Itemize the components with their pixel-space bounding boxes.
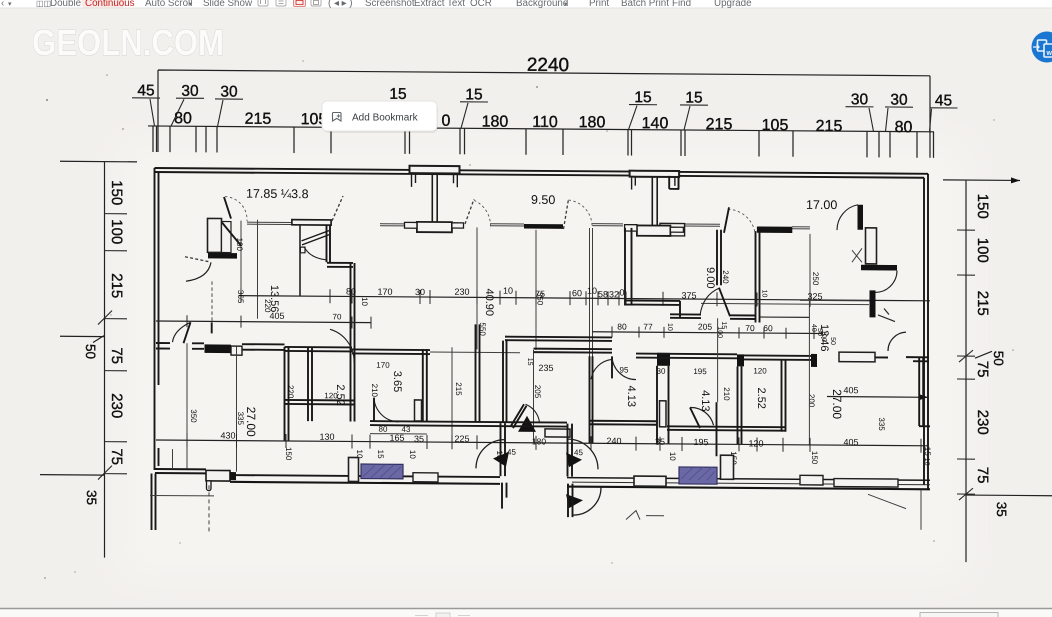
svg-text:Upgrade: Upgrade <box>714 0 752 9</box>
svg-text:Screenshot: Screenshot <box>365 0 415 9</box>
svg-text:30: 30 <box>415 287 425 297</box>
svg-text:140: 140 <box>642 115 669 132</box>
svg-text:10: 10 <box>760 290 767 298</box>
svg-text:3.65: 3.65 <box>391 371 403 393</box>
svg-text:130: 130 <box>319 432 334 442</box>
svg-text:4.13: 4.13 <box>625 386 637 408</box>
svg-text:60: 60 <box>763 323 773 333</box>
svg-text:0: 0 <box>619 287 624 297</box>
svg-text:215: 215 <box>706 116 733 133</box>
svg-text:15: 15 <box>720 321 727 329</box>
svg-text:Find: Find <box>672 0 691 9</box>
svg-text:GEOLN.COM: GEOLN.COM <box>32 22 224 63</box>
svg-text:Continuous: Continuous <box>85 0 135 9</box>
svg-text:215: 215 <box>245 111 272 128</box>
svg-text:180: 180 <box>532 436 546 446</box>
svg-text:75: 75 <box>108 347 125 364</box>
svg-text:10: 10 <box>923 458 930 466</box>
svg-text:35: 35 <box>655 437 665 447</box>
svg-text:240: 240 <box>606 436 621 446</box>
svg-text:50: 50 <box>829 337 836 345</box>
svg-text:110: 110 <box>532 114 558 131</box>
svg-text:45: 45 <box>137 82 154 99</box>
svg-text:w: w <box>1046 50 1052 57</box>
svg-text:4.13: 4.13 <box>699 390 711 412</box>
svg-text:15: 15 <box>685 89 702 106</box>
svg-text:215: 215 <box>974 291 991 316</box>
svg-text:75: 75 <box>974 467 991 484</box>
svg-text:375: 375 <box>681 290 696 300</box>
svg-text:195: 195 <box>693 437 708 447</box>
svg-text:215: 215 <box>108 273 125 298</box>
svg-text:60: 60 <box>572 288 582 298</box>
svg-text:Slide Show: Slide Show <box>203 0 253 9</box>
svg-text:195: 195 <box>693 367 707 376</box>
svg-text:80: 80 <box>895 119 913 136</box>
svg-text:OCR: OCR <box>470 0 492 9</box>
svg-text:35: 35 <box>994 502 1009 517</box>
svg-text:150: 150 <box>974 194 991 219</box>
svg-text:2240: 2240 <box>527 55 569 76</box>
svg-text:100: 100 <box>820 330 827 342</box>
svg-text:9.00: 9.00 <box>704 267 716 289</box>
svg-text:235: 235 <box>538 363 553 373</box>
svg-text:100: 100 <box>108 219 125 244</box>
svg-text:27.00: 27.00 <box>244 407 258 437</box>
svg-text:45: 45 <box>507 448 516 457</box>
svg-text:15: 15 <box>526 358 533 366</box>
svg-text:405: 405 <box>843 385 858 395</box>
svg-text:170: 170 <box>376 361 390 370</box>
svg-text:45: 45 <box>935 92 952 109</box>
svg-text:70: 70 <box>333 312 342 321</box>
svg-text:10: 10 <box>668 452 677 462</box>
svg-text:430: 430 <box>220 430 235 440</box>
svg-text:180: 180 <box>482 113 509 130</box>
svg-text:2.52: 2.52 <box>755 387 767 409</box>
svg-text:335: 335 <box>877 417 886 431</box>
svg-text:180: 180 <box>579 114 606 131</box>
svg-text:15: 15 <box>376 450 385 460</box>
svg-text:17.00: 17.00 <box>806 198 837 212</box>
svg-text:75: 75 <box>535 289 545 299</box>
svg-text:17.85 ¼3.8: 17.85 ¼3.8 <box>246 187 309 201</box>
svg-text:58: 58 <box>598 289 608 299</box>
svg-text:210: 210 <box>722 387 731 401</box>
svg-text:70: 70 <box>745 323 755 333</box>
svg-text:▾: ▾ <box>8 1 12 8</box>
svg-text:‹: ‹ <box>1 0 4 9</box>
svg-text:Add Bookmark: Add Bookmark <box>352 113 419 124</box>
svg-text:220: 220 <box>286 385 295 399</box>
svg-text:80: 80 <box>379 425 388 434</box>
svg-text:75: 75 <box>108 448 125 465</box>
svg-text:( ◂ ▸ ): ( ◂ ▸ ) <box>328 0 353 9</box>
svg-text:77: 77 <box>643 322 653 332</box>
svg-text:215: 215 <box>454 382 463 396</box>
svg-text:220: 220 <box>263 299 272 313</box>
svg-text:120: 120 <box>324 391 338 400</box>
svg-text:30: 30 <box>851 91 869 108</box>
svg-text:205: 205 <box>533 385 542 399</box>
svg-text:15: 15 <box>389 86 406 103</box>
svg-text:210: 210 <box>370 384 379 398</box>
svg-text:10: 10 <box>666 323 673 331</box>
svg-text:150: 150 <box>810 451 819 465</box>
svg-text:50: 50 <box>83 344 98 359</box>
svg-text:80: 80 <box>617 321 627 331</box>
svg-text:40.90: 40.90 <box>483 288 495 316</box>
svg-text:120: 120 <box>753 366 767 375</box>
svg-text:95: 95 <box>620 365 629 374</box>
svg-text:Print: Print <box>589 0 609 9</box>
svg-text:80: 80 <box>174 110 192 127</box>
svg-text:335: 335 <box>236 412 245 426</box>
svg-text:205: 205 <box>698 322 712 332</box>
svg-text:230: 230 <box>454 287 469 297</box>
svg-text:365: 365 <box>236 290 245 304</box>
svg-text:50: 50 <box>991 351 1006 366</box>
svg-text:27.00: 27.00 <box>830 389 844 419</box>
svg-text:230: 230 <box>974 410 991 435</box>
svg-text:Extract Text: Extract Text <box>414 0 465 9</box>
svg-text:15: 15 <box>923 447 932 457</box>
svg-text:165: 165 <box>389 433 404 443</box>
svg-text:230: 230 <box>108 393 125 418</box>
svg-text:Double: Double <box>50 0 82 9</box>
svg-text:405: 405 <box>843 437 858 447</box>
svg-text:30: 30 <box>657 367 666 376</box>
svg-text:100: 100 <box>974 238 991 263</box>
svg-text:15: 15 <box>465 86 482 103</box>
svg-text:45: 45 <box>574 448 583 457</box>
svg-text:170: 170 <box>377 287 392 297</box>
svg-text:32: 32 <box>609 289 619 299</box>
svg-text:105: 105 <box>762 117 789 134</box>
svg-text:◫◫: ◫◫ <box>36 0 51 8</box>
svg-text:35: 35 <box>414 434 424 444</box>
svg-text:200: 200 <box>807 394 816 408</box>
svg-text:15: 15 <box>634 89 651 106</box>
svg-text:30: 30 <box>220 83 238 100</box>
svg-text:80: 80 <box>346 286 356 296</box>
svg-text:10: 10 <box>360 297 369 307</box>
svg-text:350: 350 <box>189 409 198 423</box>
svg-text:240: 240 <box>721 270 730 284</box>
svg-text:Auto Scroll: Auto Scroll <box>145 0 192 9</box>
svg-text:75: 75 <box>974 361 991 378</box>
svg-text:30: 30 <box>181 83 199 100</box>
svg-text:215: 215 <box>816 118 843 135</box>
svg-text:225: 225 <box>454 434 469 444</box>
svg-text:120: 120 <box>748 438 763 448</box>
svg-text:250: 250 <box>811 272 820 286</box>
svg-text:9.50: 9.50 <box>531 193 555 207</box>
svg-text:10: 10 <box>587 286 597 296</box>
svg-text:10: 10 <box>503 286 513 296</box>
svg-text:0: 0 <box>442 113 451 130</box>
svg-text:35: 35 <box>84 490 99 505</box>
svg-text:40: 40 <box>810 324 817 332</box>
svg-text:150: 150 <box>108 180 125 205</box>
svg-text:Batch Print: Batch Print <box>621 0 669 9</box>
svg-text:10: 10 <box>408 450 417 460</box>
svg-text:30: 30 <box>890 92 908 109</box>
svg-text:150: 150 <box>284 447 293 461</box>
svg-text:Background: Background <box>516 0 568 9</box>
